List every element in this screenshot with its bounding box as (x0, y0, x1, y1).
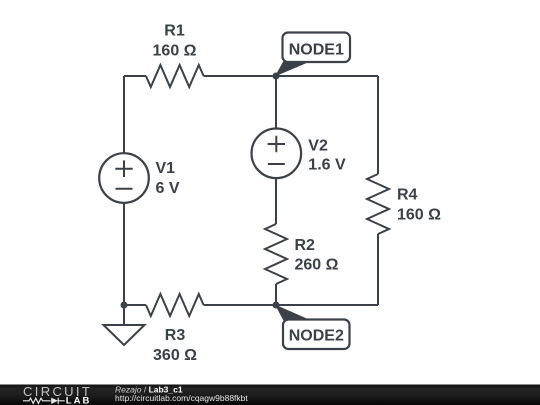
CircuitLab logo resistor-diode glyph (23, 398, 65, 404)
footer bar (0, 385, 540, 405)
ground stub (123, 305, 125, 325)
voltage source V2 (251, 129, 301, 179)
wire R2 to node NODE2 (275, 284, 277, 305)
resistor R4 (367, 174, 389, 234)
svg-text:360 Ω: 360 Ω (153, 347, 197, 364)
wire right vertical top (to R4) (377, 76, 379, 174)
wire top-left to R1 (124, 75, 146, 77)
voltage source V1 (99, 153, 149, 203)
wire ground node to R3 (124, 304, 146, 306)
svg-text:R4: R4 (397, 187, 418, 204)
value label R3 360Ω (153, 327, 197, 364)
svg-text:160 Ω: 160 Ω (153, 42, 197, 59)
wire bottom right segment (204, 304, 378, 306)
wire V2 to R2 (275, 178, 277, 224)
value label R2 260Ω (295, 237, 339, 274)
value label V1 6V (156, 160, 180, 197)
svg-text:R1: R1 (164, 23, 185, 40)
svg-text:1.6 V: 1.6 V (308, 157, 346, 174)
svg-text:R3: R3 (165, 327, 186, 344)
resistor R2 (265, 224, 287, 284)
svg-text:LAB: LAB (66, 395, 92, 405)
svg-text:NODE1: NODE1 (289, 42, 344, 59)
wire node1 down to V2 (275, 76, 277, 128)
svg-text:R2: R2 (295, 237, 316, 254)
wire left vertical top (to V1) (123, 76, 125, 153)
svg-text:V1: V1 (156, 160, 176, 177)
node label NODE1 (276, 33, 350, 76)
value label R1 160Ω (153, 23, 197, 60)
resistor R3 (146, 294, 204, 316)
node NODE2 junction dot (273, 302, 280, 309)
svg-text:160 Ω: 160 Ω (397, 206, 441, 223)
wire NODE1 to top-right corner (276, 75, 378, 77)
wire R4 to bottom-right corner (377, 234, 379, 305)
svg-text:6 V: 6 V (156, 180, 180, 197)
svg-text:V2: V2 (308, 138, 328, 155)
svg-text:http://circuitlab.com/cqagw9b8: http://circuitlab.com/cqagw9b88fkbt (115, 393, 248, 403)
svg-text:260 Ω: 260 Ω (295, 257, 339, 274)
value label V2 1.6V (308, 138, 346, 174)
value label R4 160Ω (397, 187, 441, 224)
svg-text:NODE2: NODE2 (289, 328, 344, 345)
wire R1 to node NODE1 (204, 75, 276, 77)
node ground junction dot (121, 302, 128, 309)
wire V1 bottom to ground node (123, 203, 125, 305)
ground symbol (104, 325, 145, 345)
node NODE1 junction dot (273, 73, 280, 80)
resistor R1 (146, 65, 204, 87)
node label NODE2 (276, 306, 350, 350)
